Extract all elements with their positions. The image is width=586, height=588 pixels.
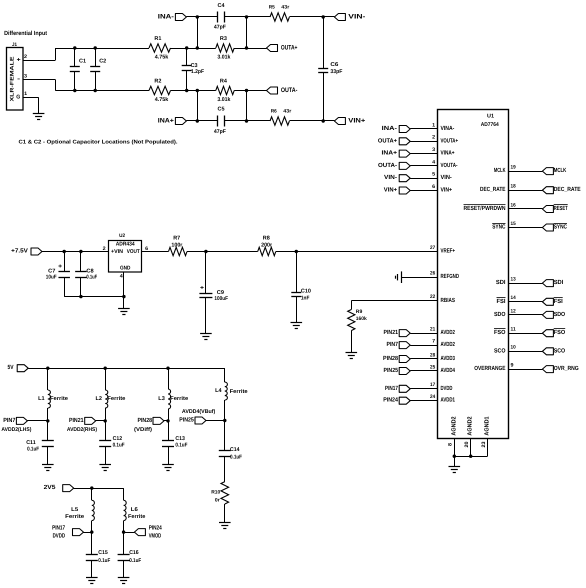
- wire U1 pin 10: [509, 351, 543, 353]
- svg-text:10uF: 10uF: [46, 275, 57, 281]
- inductor L5 Ferrite: [65, 500, 94, 520]
- svg-text:SDI: SDI: [496, 279, 506, 286]
- svg-text:VREF+: VREF+: [441, 248, 456, 255]
- svg-text:INA+: INA+: [382, 150, 398, 157]
- svg-text:18: 18: [511, 184, 516, 190]
- svg-text:R6: R6: [271, 108, 277, 114]
- op-amp U1 AD7764 body: [438, 110, 509, 439]
- node 5V / L1: [46, 367, 49, 370]
- wire AGND bus: [454, 456, 487, 458]
- resistor R8 200r: [258, 236, 276, 256]
- terminal INA+ (bottom row): [158, 118, 187, 125]
- svg-text:SYNC: SYNC: [554, 224, 568, 231]
- svg-text:33pF: 33pF: [330, 69, 343, 75]
- svg-text:AVDD1: AVDD1: [441, 397, 456, 404]
- wire U1 pin 20: [470, 438, 472, 456]
- svg-text:VINA+: VINA+: [441, 150, 455, 157]
- ground at R10: [219, 522, 231, 524]
- svg-text:PIN21: PIN21: [69, 417, 84, 424]
- svg-text:VIN+: VIN+: [384, 187, 398, 194]
- wire 2V5 rail: [74, 488, 124, 490]
- svg-text:OVR_RNG: OVR_RNG: [554, 365, 579, 372]
- terminal OUTA-: [267, 87, 298, 94]
- wire L4 to junction: [224, 400, 226, 421]
- ground at AGND: [449, 466, 461, 468]
- svg-text:PIN25: PIN25: [179, 417, 194, 424]
- svg-text:C1: C1: [79, 58, 86, 64]
- node C9: [204, 250, 207, 253]
- svg-text:R7: R7: [173, 236, 180, 242]
- terminal VIN- at U1 pin 5: [384, 174, 410, 182]
- svg-text:INA-: INA-: [158, 14, 174, 21]
- svg-text:27: 27: [430, 245, 435, 251]
- wire U1 pin 1: [410, 128, 438, 130]
- wire C4 to R5: [225, 16, 270, 18]
- svg-text:PIN28: PIN28: [383, 355, 399, 362]
- svg-text:AVDD2(RHS): AVDD2(RHS): [67, 427, 97, 433]
- svg-text:47pF: 47pF: [214, 129, 227, 135]
- svg-text:0.1uF: 0.1uF: [27, 447, 40, 453]
- terminal +7.5V: [11, 248, 42, 256]
- terminal SDI: [542, 279, 563, 287]
- terminal VIN+: [334, 118, 365, 125]
- wire J1 pin3 to bottom rail: [23, 79, 55, 81]
- wire L2 to junction: [105, 408, 107, 421]
- wire U1 pin 16: [509, 208, 543, 210]
- svg-text:MCLK: MCLK: [494, 167, 506, 174]
- svg-text:10: 10: [511, 345, 516, 351]
- terminal PIN7 at U1 pin 7: [387, 341, 411, 349]
- svg-text:FSI: FSI: [497, 298, 506, 305]
- svg-text:0.1uF: 0.1uF: [98, 558, 111, 564]
- wire U1 pin 14: [509, 301, 543, 303]
- wire U1 pin 2: [410, 141, 438, 143]
- wire PIN28 to L3 node: [164, 420, 168, 422]
- terminal INA- (top row): [158, 14, 187, 21]
- svg-text:R5: R5: [269, 4, 275, 10]
- terminal PIN28 (VDiff): [134, 417, 164, 433]
- svg-text:R2: R2: [154, 78, 161, 84]
- svg-text:C11: C11: [26, 440, 36, 446]
- wire U1 pin 28: [410, 358, 438, 360]
- node L6/C16: [122, 530, 125, 533]
- svg-text:FSI: FSI: [554, 298, 563, 305]
- capacitor C10 1nF: [291, 252, 311, 323]
- node rail B / C5 branch: [245, 89, 248, 92]
- svg-text:0.1uF: 0.1uF: [230, 454, 243, 460]
- svg-text:3.01k: 3.01k: [217, 97, 231, 103]
- svg-text:L3: L3: [158, 396, 165, 402]
- svg-text:C1 & C2 - Optional Capacitor L: C1 & C2 - Optional Capacitor Locations (…: [19, 140, 179, 146]
- capacitor C13 0.1uF: [162, 421, 188, 464]
- wire 2V5 to L5: [91, 488, 93, 500]
- terminal 5V: [8, 364, 29, 372]
- wire PIN24 to L6 node: [124, 532, 135, 534]
- svg-text:VIN-: VIN-: [441, 174, 452, 181]
- svg-text:L1: L1: [38, 396, 45, 402]
- ground (sideways) at REFGND: [401, 271, 403, 283]
- svg-text:15: 15: [511, 221, 516, 227]
- ground at C12: [99, 464, 111, 466]
- svg-text:Ferrite: Ferrite: [128, 514, 145, 520]
- wire C5 to R6: [225, 120, 270, 122]
- svg-text:RESET: RESET: [554, 205, 568, 212]
- inductor L6 Ferrite: [124, 500, 146, 520]
- wire U1 pin 5: [410, 178, 438, 180]
- inductor L4 Ferrite: [215, 382, 248, 400]
- capacitor C12 0.1uF: [99, 421, 125, 464]
- terminal OVR_RNG: [542, 365, 579, 373]
- svg-text:3: 3: [24, 74, 27, 80]
- wire U1 pin 25: [410, 370, 438, 372]
- node L4/C14: [223, 419, 226, 422]
- svg-text:SDO: SDO: [494, 311, 506, 318]
- svg-text:2: 2: [24, 54, 27, 60]
- svg-text:+VIN: +VIN: [111, 249, 123, 255]
- svg-text:C5: C5: [218, 107, 225, 113]
- svg-text:AVDD4: AVDD4: [441, 367, 456, 374]
- svg-text:DEC_RATE: DEC_RATE: [554, 186, 581, 193]
- svg-text:9: 9: [511, 363, 514, 369]
- svg-text:21: 21: [430, 327, 435, 333]
- svg-text:C10: C10: [301, 289, 311, 295]
- wire U1 pin 12: [509, 314, 543, 316]
- svg-text:VOUTA-: VOUTA-: [441, 162, 458, 169]
- svg-text:47pF: 47pF: [214, 24, 227, 30]
- svg-text:C6: C6: [330, 62, 338, 68]
- capacitor C2: [90, 48, 106, 91]
- terminal PIN24 VMOD: [134, 525, 162, 540]
- svg-text:AVDD4(VBuf): AVDD4(VBuf): [182, 409, 216, 415]
- svg-text:AGND2: AGND2: [450, 416, 457, 436]
- wire U2 GND down: [123, 272, 125, 309]
- wire L5 to junction: [91, 521, 93, 533]
- svg-text:VIN-: VIN-: [348, 14, 365, 21]
- wire U1 pin 6: [410, 190, 438, 192]
- svg-text:OUTA+: OUTA+: [281, 45, 298, 52]
- terminal VIN-: [334, 14, 365, 21]
- node rail B / C1: [73, 89, 76, 92]
- node rail B / C2: [94, 89, 97, 92]
- svg-text:OUTA-: OUTA-: [378, 162, 397, 169]
- resistor R7 100r: [169, 236, 188, 256]
- wire C7/C8 bottoms to U2 GND: [64, 296, 124, 298]
- svg-text:1.2pF: 1.2pF: [191, 69, 205, 75]
- svg-text:SCO: SCO: [554, 347, 566, 354]
- wire 5V to L3: [168, 368, 170, 389]
- svg-text:4.75k: 4.75k: [155, 55, 169, 61]
- svg-text:MCLK: MCLK: [554, 167, 567, 174]
- svg-text:RBIAS: RBIAS: [441, 297, 456, 304]
- capacitor C8 0.1uF: [75, 252, 98, 297]
- svg-text:AVDD2: AVDD2: [441, 329, 456, 336]
- wire +7.5V to U2 VIN: [42, 251, 109, 253]
- svg-text:2: 2: [432, 135, 435, 141]
- svg-text:R9: R9: [356, 309, 363, 315]
- terminal PIN28 at U1 pin 28: [383, 355, 410, 363]
- wire PIN17 to L5 node: [84, 532, 92, 534]
- svg-text:C2: C2: [99, 58, 106, 64]
- pin 22 RBIAS wire: [351, 300, 438, 302]
- wire L3 to junction: [168, 409, 170, 421]
- svg-text:RESET/PWRDWN: RESET/PWRDWN: [464, 205, 506, 212]
- svg-text:24: 24: [430, 394, 435, 400]
- svg-text:160k: 160k: [356, 316, 367, 322]
- node C7: [62, 250, 65, 253]
- svg-text:VMOD: VMOD: [149, 532, 162, 539]
- svg-text:PIN17: PIN17: [385, 385, 399, 392]
- wire U1 pin 15: [509, 227, 543, 229]
- terminal OUTA- at U1 pin 4: [378, 162, 410, 170]
- svg-text:6: 6: [432, 184, 435, 190]
- wire INA+ to C5: [186, 120, 217, 122]
- terminal SCO: [542, 347, 565, 355]
- svg-text:R1: R1: [154, 36, 161, 42]
- capacitor C6 33pF: [318, 17, 343, 121]
- svg-text:OUTA-: OUTA-: [281, 87, 298, 94]
- svg-text:SYNC: SYNC: [492, 224, 506, 231]
- svg-text:L2: L2: [96, 396, 103, 402]
- node 5V / L3: [166, 367, 169, 370]
- terminal VIN+ at U1 pin 6: [384, 187, 410, 195]
- terminal PIN21 at U1 pin 21: [384, 329, 411, 337]
- svg-text:1: 1: [24, 91, 27, 97]
- node INA- / branch: [196, 15, 199, 18]
- wire RBIAS down to R9: [351, 301, 353, 310]
- wire U1 pin 7: [410, 345, 438, 347]
- wire R9 to ground: [351, 331, 353, 352]
- node rail A / C3: [185, 46, 188, 49]
- svg-text:0.1uF: 0.1uF: [129, 558, 142, 564]
- terminal INA- at U1 pin 1: [382, 125, 411, 133]
- svg-text:FSO: FSO: [494, 329, 506, 336]
- resistor R6 43r: [270, 108, 291, 125]
- wire U1 pin 19: [509, 171, 543, 173]
- svg-text:R8: R8: [263, 236, 270, 242]
- svg-text:PIN21: PIN21: [384, 329, 399, 336]
- wire U1 pin 3: [410, 153, 438, 155]
- svg-text:PIN25: PIN25: [384, 367, 399, 374]
- svg-text:AVDD3: AVDD3: [441, 355, 456, 362]
- resistor R2 4.75k: [149, 78, 171, 103]
- svg-text:7: 7: [432, 339, 435, 345]
- terminal PIN17 DVDD: [52, 525, 83, 540]
- svg-text:(VDiff): (VDiff): [134, 427, 152, 433]
- svg-text:PIN24: PIN24: [149, 525, 163, 532]
- svg-text:C15: C15: [98, 550, 108, 556]
- svg-text:SDO: SDO: [554, 311, 566, 318]
- svg-text:PIN28: PIN28: [138, 417, 153, 424]
- wire INA+ branch vertical: [197, 91, 199, 122]
- svg-text:R4: R4: [220, 78, 228, 84]
- svg-text:Ferrite: Ferrite: [65, 514, 84, 520]
- svg-text:J1: J1: [12, 42, 17, 48]
- ground at R9: [346, 352, 358, 354]
- svg-text:XLR-FEMALE: XLR-FEMALE: [10, 56, 16, 102]
- wire rail B left segment: [55, 90, 149, 92]
- wire U1 pin 17: [410, 388, 438, 390]
- terminal DEC_RATE: [542, 186, 580, 194]
- svg-text:C8: C8: [86, 268, 93, 274]
- svg-text:REFGND: REFGND: [441, 273, 460, 280]
- wire U1 pin 21: [410, 333, 438, 335]
- node rail B / C3: [185, 89, 188, 92]
- regulator U2 ADR434: [103, 233, 149, 280]
- node C5 / R6 branch: [245, 119, 248, 122]
- resistor R4 3.01k: [216, 78, 234, 103]
- ground at C11: [42, 464, 54, 466]
- svg-text:1: 1: [432, 122, 435, 128]
- svg-text:R3: R3: [220, 36, 227, 42]
- svg-text:AVDD2(LHS): AVDD2(LHS): [1, 427, 31, 433]
- svg-text:0.1uF: 0.1uF: [113, 443, 126, 449]
- svg-text:1nF: 1nF: [301, 296, 310, 302]
- svg-text:100uF: 100uF: [214, 296, 228, 302]
- resistor R9 160k: [348, 309, 367, 331]
- svg-text:ADR434: ADR434: [116, 242, 136, 248]
- svg-text:2V5: 2V5: [44, 484, 57, 491]
- svg-text:C14: C14: [230, 447, 240, 453]
- terminal RESET: [542, 205, 568, 213]
- terminal MCLK: [542, 167, 566, 175]
- terminal PIN25 AVDD4(VBuf): [179, 409, 215, 424]
- svg-text:AD7764: AD7764: [481, 122, 500, 128]
- resistor R10 0r: [211, 482, 228, 504]
- node C8 bottom: [79, 295, 82, 298]
- svg-text:VIN+: VIN+: [348, 118, 365, 125]
- svg-text:26: 26: [430, 271, 435, 277]
- svg-text:Differential Input: Differential Input: [4, 30, 47, 37]
- svg-text:GND: GND: [120, 265, 131, 271]
- svg-text:14: 14: [511, 295, 516, 301]
- wire INA- branch vertical: [197, 17, 199, 48]
- svg-text:4: 4: [120, 274, 123, 280]
- svg-text:Ferrite: Ferrite: [230, 389, 248, 395]
- svg-text:AVDD2: AVDD2: [441, 341, 456, 348]
- wire 5V to L4: [224, 368, 226, 382]
- inductor L3 Ferrite: [158, 389, 188, 409]
- wire INA- to C4: [186, 16, 217, 18]
- wire J1 pin1 to ground: [23, 97, 39, 99]
- svg-text:0.1uF: 0.1uF: [175, 443, 188, 449]
- svg-text:PIN24: PIN24: [383, 397, 398, 404]
- terminal OUTA+: [267, 45, 298, 52]
- inductor L1 Ferrite: [38, 390, 68, 408]
- capacitor C11 0.1uF: [26, 421, 54, 464]
- svg-text:DVDD: DVDD: [441, 385, 453, 392]
- svg-text:AGND2: AGND2: [467, 416, 474, 436]
- ground at C9: [200, 333, 212, 335]
- svg-text:5: 5: [432, 172, 435, 178]
- ground at C15: [86, 577, 98, 579]
- inductor L2 Ferrite: [96, 390, 126, 408]
- svg-text:200r: 200r: [261, 243, 273, 249]
- svg-text:0.1uF: 0.1uF: [86, 275, 97, 281]
- wire AGND to ground: [454, 456, 456, 466]
- capacitor C3 1.2pF: [182, 48, 205, 91]
- node AGND bus pin20: [469, 455, 472, 458]
- node U2 GND junction: [122, 295, 125, 298]
- svg-text:19: 19: [511, 165, 516, 171]
- svg-text:11: 11: [511, 327, 516, 333]
- wire 5V rail: [28, 368, 225, 370]
- svg-text:PIN7: PIN7: [3, 417, 16, 424]
- wire U1 pin 8: [454, 438, 456, 456]
- node rail A / INA- branch: [196, 46, 199, 49]
- wire U1 pin 4: [410, 165, 438, 167]
- connector J1 XLR-FEMALE: [7, 42, 28, 110]
- wire 5V to L1: [47, 368, 49, 390]
- terminal PIN25 at U1 pin 25: [384, 367, 411, 375]
- capacitor C14 0.1uF: [219, 421, 243, 482]
- resistor R1 4.75k: [149, 36, 171, 61]
- node rail A / C2: [94, 46, 97, 49]
- node VIN+ / C6: [322, 119, 325, 122]
- svg-text:DVDD: DVDD: [53, 532, 66, 539]
- svg-text:16: 16: [511, 202, 516, 208]
- svg-text:AGND1: AGND1: [484, 416, 491, 436]
- terminal PIN24 at U1 pin 24: [383, 397, 410, 405]
- svg-text:43r: 43r: [281, 4, 289, 10]
- wire R1 to R3: [171, 48, 216, 50]
- svg-text:-: -: [17, 77, 20, 83]
- capacitor C1: [70, 48, 86, 91]
- wire R3 to OUTA+ terminal: [234, 48, 266, 50]
- svg-text:VOUT: VOUT: [127, 249, 141, 255]
- svg-text:L6: L6: [131, 507, 138, 513]
- node C4 / R5 branch: [245, 15, 248, 18]
- svg-text:L5: L5: [71, 507, 78, 513]
- svg-text:0r: 0r: [215, 497, 220, 503]
- svg-text:+: +: [200, 286, 205, 292]
- wire L6 to junction: [123, 521, 125, 533]
- wire C4 branch vertical: [246, 17, 248, 48]
- svg-text:C13: C13: [175, 436, 185, 442]
- svg-text:VIN+: VIN+: [441, 187, 453, 194]
- svg-text:22: 22: [430, 294, 435, 300]
- terminal FSI: [542, 298, 563, 306]
- svg-text:U1: U1: [487, 114, 494, 120]
- capacitor C7 10uF: [46, 252, 70, 297]
- svg-text:SDI: SDI: [554, 279, 564, 286]
- svg-text:25: 25: [430, 364, 435, 370]
- wire U1 pin 24: [410, 400, 438, 402]
- svg-text:FSO: FSO: [554, 329, 566, 336]
- svg-text:3: 3: [432, 147, 435, 153]
- node VIN- / C6: [322, 15, 325, 18]
- capacitor C4 47pF: [214, 3, 227, 31]
- svg-text:100r: 100r: [171, 243, 183, 249]
- svg-text:OUTA+: OUTA+: [378, 137, 398, 144]
- svg-text:C7: C7: [48, 268, 55, 274]
- svg-text:DEC_RATE: DEC_RATE: [480, 186, 506, 193]
- svg-text:17: 17: [430, 382, 435, 388]
- capacitor C5 47pF: [214, 107, 227, 136]
- capacitor C9 100uF: [199, 252, 228, 334]
- svg-text:PIN17: PIN17: [52, 525, 66, 532]
- ground at C16: [118, 577, 130, 579]
- svg-text:C4: C4: [218, 3, 226, 9]
- node INA+ / branch: [196, 119, 199, 122]
- pin 26 REFGND wire: [401, 277, 438, 279]
- svg-text:20: 20: [464, 441, 470, 447]
- wire U1 pin 11: [509, 333, 543, 335]
- svg-text:+7.5V: +7.5V: [11, 248, 28, 255]
- resistor R3 3.01k: [216, 36, 234, 61]
- wire R2 to R4: [171, 90, 216, 92]
- svg-text:VOUTA+: VOUTA+: [441, 137, 459, 144]
- wire PIN7 to L1 node: [27, 420, 47, 422]
